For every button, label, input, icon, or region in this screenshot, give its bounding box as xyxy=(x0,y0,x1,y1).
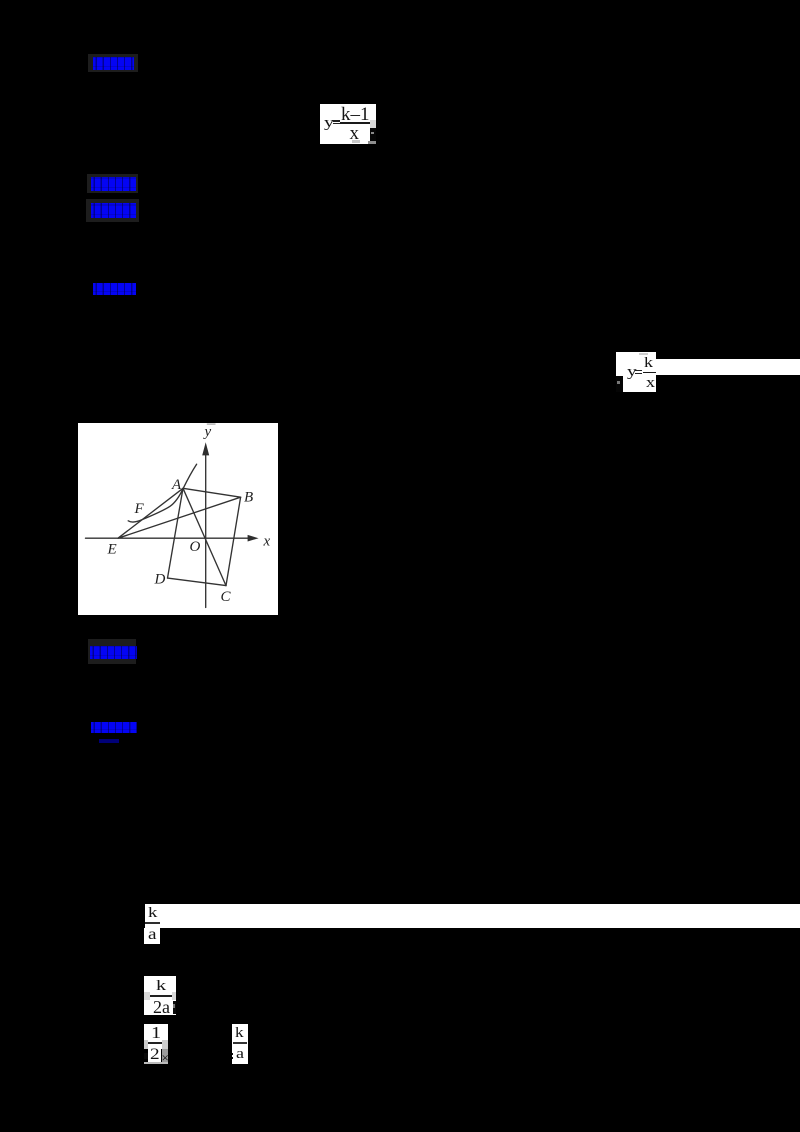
faint blue dash below label 6 xyxy=(99,739,119,743)
x axis xyxy=(86,537,249,539)
dark mark right of 2a xyxy=(173,1001,176,1014)
dark multiplication mark xyxy=(162,1051,169,1064)
line EB xyxy=(118,497,241,538)
line EA xyxy=(118,488,183,538)
y axis arrowhead xyxy=(202,442,209,455)
y axis xyxy=(205,452,207,608)
equation box 2: y=k/x with highlight strip xyxy=(616,352,656,393)
equation box 1: y=(k-1)/x xyxy=(320,104,376,128)
fraction k/2a xyxy=(144,976,176,1016)
svg-text:D: D xyxy=(154,572,166,588)
figure: white panel with coordinate plane xyxy=(78,423,278,615)
side AB xyxy=(183,488,241,497)
blue label 5 xyxy=(90,646,137,659)
figure background xyxy=(78,423,278,615)
blue label 4 xyxy=(93,283,136,295)
fraction k/a (second) xyxy=(232,1024,248,1064)
blue label 2 backing xyxy=(87,174,138,193)
side BC xyxy=(226,497,241,585)
colon mark left of k/a xyxy=(232,1053,234,1056)
blue label 1 xyxy=(93,57,134,70)
diagonal AC xyxy=(183,488,226,585)
svg-text:y: y xyxy=(203,424,212,440)
side DA xyxy=(168,488,184,578)
fraction 1/2 xyxy=(144,1024,168,1040)
blue label 5 backing xyxy=(88,639,136,664)
blue label 3 backing xyxy=(86,199,139,222)
svg-text:C: C xyxy=(221,589,232,605)
hyperbola through F and A xyxy=(128,464,196,522)
svg-text:A: A xyxy=(171,477,182,493)
blue label 3 xyxy=(91,203,136,218)
blue label 2 xyxy=(91,177,136,191)
blue label 6 xyxy=(91,722,137,733)
top gray dash xyxy=(207,423,216,425)
x axis arrowhead xyxy=(248,535,259,542)
svg-text:F: F xyxy=(134,501,145,517)
svg-text:B: B xyxy=(244,490,253,506)
labels xyxy=(107,424,271,605)
svg-text:O: O xyxy=(190,539,201,555)
blue label 1 backing xyxy=(88,54,138,72)
svg-text:x: x xyxy=(263,534,271,550)
fraction k/a with full-width highlight strip xyxy=(145,904,800,928)
svg-text:E: E xyxy=(107,542,117,558)
side CD xyxy=(168,578,227,586)
